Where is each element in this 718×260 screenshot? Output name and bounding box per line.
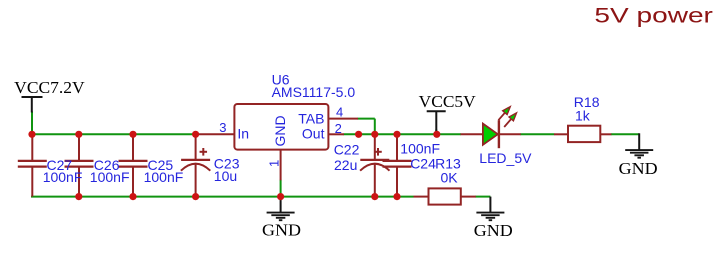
- svg-text:4: 4: [336, 104, 343, 119]
- svg-text:10u: 10u: [214, 168, 237, 184]
- svg-text:AMS1117-5.0: AMS1117-5.0: [272, 84, 356, 100]
- svg-text:C24: C24: [410, 156, 436, 172]
- svg-text:100nF: 100nF: [43, 169, 83, 185]
- svg-text:100nF: 100nF: [144, 169, 184, 185]
- svg-text:2: 2: [335, 121, 342, 136]
- svg-text:TAB: TAB: [298, 110, 324, 126]
- svg-text:VCC7.2V: VCC7.2V: [14, 78, 85, 97]
- svg-text:22u: 22u: [334, 157, 357, 173]
- svg-text:100nF: 100nF: [400, 141, 440, 157]
- svg-text:1k: 1k: [575, 107, 591, 123]
- svg-text:Out: Out: [302, 125, 325, 141]
- svg-text:1: 1: [267, 160, 282, 167]
- svg-text:GND: GND: [474, 221, 513, 240]
- svg-text:GND: GND: [262, 220, 301, 239]
- svg-text:3: 3: [219, 120, 226, 135]
- svg-text:100nF: 100nF: [90, 169, 130, 185]
- svg-text:LED_5V: LED_5V: [479, 150, 532, 166]
- svg-text:5V power: 5V power: [594, 4, 713, 27]
- svg-text:C22: C22: [334, 141, 360, 157]
- svg-text:0K: 0K: [441, 170, 459, 186]
- svg-text:GND: GND: [272, 115, 288, 146]
- svg-text:In: In: [237, 125, 249, 141]
- svg-text:GND: GND: [619, 159, 658, 178]
- svg-text:VCC5V: VCC5V: [419, 92, 477, 111]
